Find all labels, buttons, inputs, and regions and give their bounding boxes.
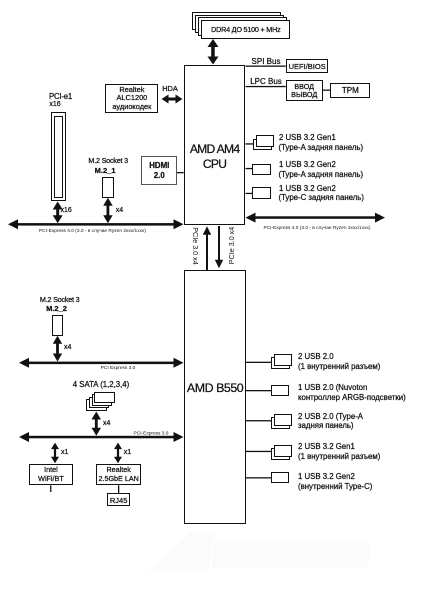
svg-text:PCI Express 3.0: PCI Express 3.0	[101, 365, 136, 371]
svg-text:PCIe 3.0 x4: PCIe 3.0 x4	[191, 227, 200, 265]
svg-text:PCI-Express 3.0: PCI-Express 3.0	[134, 431, 169, 437]
svg-text:PCI-Express 4.0 (3.0 - в случа: PCI-Express 4.0 (3.0 - в случае Ryzen 2x…	[263, 225, 370, 231]
svg-text:PCIe 3.0 x4: PCIe 3.0 x4	[227, 227, 236, 265]
svg-text:PCI-Express 4.0 (3.0 - в случа: PCI-Express 4.0 (3.0 - в случае Ryzen 2x…	[39, 228, 146, 234]
